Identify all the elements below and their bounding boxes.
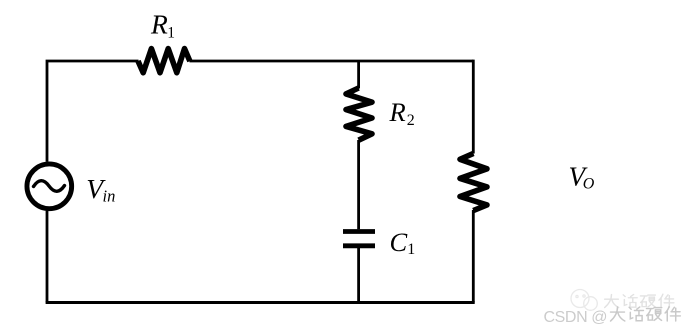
resistor R1	[138, 49, 190, 73]
wire top-left: V_in top to R1 left lead	[46, 61, 139, 162]
capacitor C1	[343, 232, 375, 246]
wire middle branch top: top wire to R2	[357, 61, 360, 89]
svg-text:in: in	[103, 187, 116, 206]
resistor RL (right branch)	[460, 153, 487, 210]
wire right top: top wire to right resistor	[472, 60, 475, 154]
svg-text:1: 1	[167, 24, 175, 41]
svg-text:R: R	[150, 9, 168, 40]
svg-text:CSDN @: CSDN @	[544, 309, 608, 326]
watermark big CJK text (lower): da hua ying jian	[611, 307, 681, 321]
resistor R2	[346, 88, 372, 140]
watermark small CJK text (upper): da hua ying jian	[605, 294, 674, 307]
wire right bottom: right resistor to bottom wire	[472, 210, 475, 303]
svg-text:C: C	[390, 227, 408, 257]
svg-text:R: R	[389, 97, 406, 127]
source V_in (AC)	[27, 164, 72, 209]
wire middle bottom: C1 to bottom wire	[357, 248, 360, 303]
wire top-right: R1 right lead to right branch top	[190, 60, 474, 63]
watermark logo icon	[571, 290, 597, 311]
wire middle: R2 to C1	[357, 140, 360, 229]
svg-text:2: 2	[407, 112, 415, 129]
wire bottom	[46, 301, 475, 304]
svg-text:O: O	[583, 176, 595, 193]
wire left-bottom: V_in bottom to bottom-left corner	[46, 211, 49, 303]
svg-text:1: 1	[407, 241, 415, 258]
